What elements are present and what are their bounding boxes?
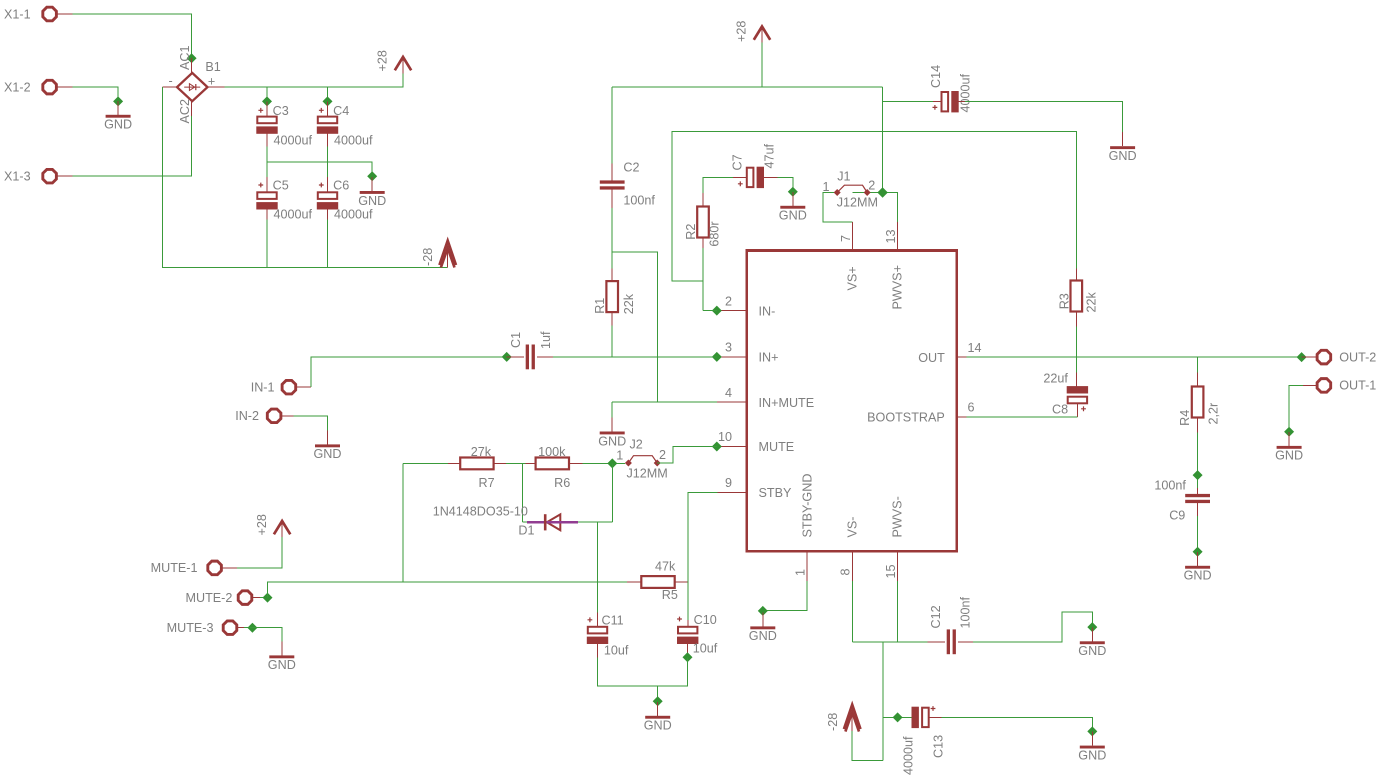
wire row4 ground drop	[611, 402, 613, 417]
wire +28 mute arrow stem	[281, 521, 283, 537]
svg-text:4000uf: 4000uf	[902, 736, 916, 775]
pin 3 IN+ stub	[717, 356, 747, 358]
svg-text:J1: J1	[837, 169, 850, 183]
wire C3 bottom lead	[266, 134, 268, 147]
node C13 ground junction	[1087, 726, 1097, 736]
wire C4 bottom to mid rail	[327, 146, 329, 162]
svg-text:C9: C9	[1169, 509, 1185, 523]
svg-text:MUTE-3: MUTE-3	[167, 621, 214, 635]
svg-text:+: +	[208, 75, 215, 89]
node OUT-1 ground junction	[1284, 427, 1294, 437]
wire MUTE-2 stub	[252, 597, 260, 599]
svg-text:OUT-1: OUT-1	[1339, 379, 1376, 393]
pin 1 STBY-GND stub	[806, 551, 808, 581]
svg-text:4000uf: 4000uf	[959, 73, 973, 112]
wire -28 net from B1 minus	[163, 87, 448, 267]
wire OUT-1 to ground	[1289, 385, 1303, 431]
wire C12 to ground	[973, 612, 1093, 642]
svg-text:C6: C6	[333, 179, 349, 193]
svg-text:4000uf: 4000uf	[274, 133, 313, 147]
capacitor C8 (flipped, plus down)	[1067, 386, 1088, 403]
wire C6 bottom lead	[327, 208, 329, 219]
pin 10 MUTE stub	[717, 446, 747, 448]
svg-text:+28: +28	[255, 514, 269, 535]
resistor R1	[606, 281, 618, 312]
diode D1	[547, 514, 561, 530]
wire R4 bottom lead	[1197, 418, 1199, 433]
svg-text:680r: 680r	[708, 221, 722, 246]
wire D1 left lead	[527, 521, 544, 523]
ground symbol at pin4	[598, 418, 626, 449]
wire -28 arrow stem	[851, 716, 853, 731]
svg-text:C5: C5	[273, 179, 289, 193]
svg-text:4000uf: 4000uf	[334, 207, 373, 221]
node OUT-2 junction	[1297, 352, 1307, 362]
capacitor C13	[912, 707, 929, 728]
connector pad OUT-2	[1317, 350, 1376, 364]
wire AC2 pin lead	[191, 101, 193, 116]
node MUTE-2 junction	[263, 593, 273, 603]
wire +28 column down to J1	[882, 87, 884, 192]
wire C1 left lead	[507, 356, 524, 358]
node pin2 junction	[712, 306, 722, 316]
resistor R2	[697, 207, 709, 238]
wire C9 bottom lead	[1197, 503, 1199, 516]
wire R6 right lead	[569, 462, 583, 464]
pin 7 VS+ stub	[852, 222, 854, 251]
wire C2 top column	[611, 87, 613, 163]
bridge rectifier B1	[177, 73, 208, 101]
svg-text:C2: C2	[623, 161, 639, 175]
wire +28 arrow stem (top center)	[761, 43, 763, 88]
wire OUT-2 stub	[1302, 356, 1318, 358]
connector pad MUTE-3	[167, 621, 237, 635]
svg-text:4000uf: 4000uf	[274, 207, 313, 221]
wire IN- feedback rail	[672, 132, 1077, 282]
wire MUTE-1 stub	[221, 567, 237, 569]
power arrow -28 (top left block)	[439, 241, 456, 268]
svg-text:22k: 22k	[1085, 291, 1099, 312]
wire MUTE-1 to +28	[237, 537, 282, 568]
capacitor C5	[256, 192, 277, 209]
wire pin2 to R2	[703, 310, 717, 312]
svg-text:6: 6	[968, 401, 975, 415]
wire R5 left lead	[627, 581, 642, 583]
svg-text:14: 14	[968, 341, 982, 355]
svg-text:100k: 100k	[538, 445, 566, 459]
wire C4 top drop	[327, 87, 329, 101]
wire pin15 drop	[897, 581, 899, 642]
wire R3 top lead	[1075, 268, 1077, 281]
wire R1 bottom lead	[611, 312, 613, 326]
wire D1 to C11 drop	[597, 522, 599, 612]
wire R4 to C9	[1197, 433, 1199, 489]
svg-text:C3: C3	[273, 104, 289, 118]
wire D1 left vertical	[521, 463, 523, 522]
wire C2 top lead	[611, 163, 613, 180]
svg-text:C11: C11	[602, 613, 624, 627]
jumper J1 pad 2	[864, 189, 871, 196]
wire R7 branch vertical	[402, 463, 404, 582]
jumper J2 bridge	[628, 456, 657, 463]
wire MUTE-2 to junction	[260, 597, 268, 599]
capacitor C2	[600, 180, 625, 189]
svg-text:15: 15	[884, 564, 898, 578]
ground symbol at C4/C6 rail	[358, 177, 386, 208]
svg-text:-28: -28	[826, 713, 840, 731]
svg-text:4000uf: 4000uf	[334, 133, 373, 147]
wire +28 rail from B1 plus	[225, 73, 404, 87]
svg-text:OUT: OUT	[918, 351, 945, 365]
wire IN-1 stub	[296, 386, 312, 388]
svg-text:2,2r: 2,2r	[1207, 403, 1221, 425]
svg-text:PWVS+: PWVS+	[890, 265, 904, 309]
wire J1 pad1 wire	[823, 193, 852, 223]
node C1 left junction	[502, 352, 512, 362]
wire C14 right lead	[959, 101, 966, 103]
wire C3 top drop	[266, 87, 268, 101]
svg-text:BOOTSTRAP: BOOTSTRAP	[867, 411, 945, 425]
svg-text:47uf: 47uf	[763, 143, 777, 168]
connector pad IN-2	[235, 409, 281, 423]
pin 13 PWVS+ stub	[897, 222, 899, 251]
node C9 ground junction	[1193, 547, 1203, 557]
wire C5 bottom to -28 rail	[266, 220, 268, 268]
wire +28 arrow maroon stem	[761, 27, 763, 43]
svg-text:2: 2	[725, 294, 732, 308]
svg-text:-: -	[169, 74, 173, 88]
svg-text:100nf: 100nf	[959, 596, 973, 628]
wire MUTE-2 long rail	[268, 582, 627, 598]
wire C12 left lead	[927, 641, 944, 643]
capacitor C12	[947, 629, 956, 654]
node C10/C11 ground junction	[653, 696, 663, 706]
resistor R4	[1192, 387, 1204, 418]
wire R5 right lead	[674, 581, 688, 583]
wire OUT-1 stub	[1303, 384, 1317, 386]
ground symbol at C13	[1078, 732, 1106, 763]
wire -28 column	[882, 642, 884, 761]
svg-text:100nf: 100nf	[1154, 478, 1186, 492]
wire ground mid rail	[267, 162, 372, 176]
svg-text:D1: D1	[518, 524, 534, 538]
wire C3 bottom to mid rail	[266, 146, 268, 162]
wire pin6 row	[966, 416, 1077, 418]
resistor R6	[536, 458, 569, 470]
wire B1 minus lead	[163, 86, 177, 88]
svg-text:10uf: 10uf	[604, 643, 629, 657]
connector pad X1-2	[4, 80, 56, 94]
node X1-2 ground junction	[113, 96, 123, 106]
svg-text:10: 10	[718, 430, 732, 444]
wire VS- rail	[852, 641, 927, 643]
wire R1 bottom to IN+ row	[611, 326, 613, 357]
wire C4 top lead	[327, 101, 329, 116]
svg-text:J12MM: J12MM	[627, 466, 668, 480]
wire C9 to ground	[1197, 516, 1199, 552]
wire C10 bottom lead	[687, 644, 689, 658]
label C13 plus	[931, 706, 936, 711]
wire C3 top lead	[266, 101, 268, 116]
capacitor C1	[526, 345, 535, 370]
wire C14 left lead	[933, 101, 941, 103]
wire D1 right vertical	[611, 463, 613, 522]
wire OUT row	[966, 356, 1301, 358]
wire B1 plus lead	[208, 86, 225, 88]
svg-text:9: 9	[725, 476, 732, 490]
node mid rail ground junction	[367, 171, 377, 181]
wire R6 to J2	[583, 462, 625, 464]
wire C6 top from rail	[327, 162, 329, 177]
wire IN-1 to C1	[311, 357, 507, 387]
svg-text:3: 3	[725, 341, 732, 355]
svg-text:X1-3: X1-3	[4, 170, 31, 184]
wire C11 top lead	[597, 612, 599, 627]
wire C11 bottom lead	[597, 643, 599, 658]
wire C7 right lead	[764, 176, 777, 178]
wire IN-2 to ground	[294, 416, 328, 432]
wire pin8 drop	[851, 581, 853, 642]
wire R2 bottom lead	[702, 238, 704, 248]
node MUTE-3 junction	[247, 623, 257, 633]
svg-text:R4: R4	[1178, 410, 1192, 426]
wire R7 row left	[403, 462, 448, 464]
svg-text:+28: +28	[735, 21, 749, 42]
capacitor C14	[942, 91, 959, 112]
wire R2 top lead	[702, 193, 704, 207]
pin 2 IN- stub	[717, 310, 747, 312]
svg-text:2: 2	[868, 178, 875, 192]
svg-text:27k: 27k	[471, 445, 492, 459]
resistor R7	[460, 458, 493, 470]
node C3 junction	[262, 96, 272, 106]
ground symbol at MUTE-3	[268, 641, 296, 672]
capacitor C10	[677, 627, 698, 644]
svg-text:AC1: AC1	[178, 46, 192, 71]
wire AC1 pin lead	[191, 58, 193, 73]
wire R3 bottom lead	[1075, 311, 1077, 326]
capacitor C4	[317, 117, 338, 134]
wire R4 top lead	[1197, 373, 1199, 386]
connector pad X1-1	[4, 7, 56, 21]
svg-text:MUTE-1: MUTE-1	[151, 561, 198, 575]
svg-text:J2: J2	[630, 437, 643, 451]
wire C2 bottom lead	[611, 190, 613, 208]
svg-text:C7: C7	[731, 154, 745, 170]
svg-text:1uf: 1uf	[539, 331, 553, 349]
svg-text:8: 8	[839, 568, 853, 575]
svg-text:10uf: 10uf	[693, 641, 718, 655]
diode D1 cathode bar	[544, 514, 547, 530]
node pin10 junction	[712, 442, 722, 452]
svg-text:C13: C13	[932, 735, 946, 758]
connector pad X1-3	[4, 169, 56, 183]
ground symbol at C9	[1184, 552, 1212, 583]
jumper J1 bridge	[837, 185, 867, 192]
wire R7 right lead	[494, 462, 506, 464]
wire X1-2 pin stub	[56, 86, 72, 88]
ground symbol at C12	[1078, 627, 1106, 658]
wire J2 pad2 to pin10	[657, 447, 717, 464]
connector pad OUT-1	[1317, 379, 1376, 393]
node C13 junction	[893, 712, 903, 722]
wire R6 left lead	[526, 462, 536, 464]
svg-text:C1: C1	[509, 332, 523, 348]
pin 9 STBY stub	[718, 492, 747, 494]
ground symbol at pin1	[749, 612, 777, 643]
wire IN-2 stub	[281, 415, 294, 417]
capacitor C9	[1185, 494, 1210, 503]
svg-text:R5: R5	[662, 588, 678, 602]
wire R2 column	[702, 248, 704, 311]
wire X1-2 to ground	[73, 87, 118, 101]
capacitor C7	[747, 167, 764, 188]
wire -28 arrow to column	[852, 731, 883, 761]
ground symbol at C7	[779, 192, 807, 223]
svg-text:C10: C10	[694, 613, 717, 627]
wire C7 left lead	[733, 176, 747, 178]
ground symbol at OUT-1	[1275, 432, 1303, 463]
svg-text:R3: R3	[1058, 293, 1072, 309]
wire C5 top lead	[266, 177, 268, 192]
svg-text:C4: C4	[333, 104, 349, 118]
svg-text:IN-2: IN-2	[235, 409, 259, 423]
pin 8 VS- stub	[851, 551, 853, 581]
wire STBY column	[688, 493, 718, 621]
label C11 plus	[588, 617, 593, 622]
svg-text:IN+: IN+	[759, 351, 779, 365]
pin 6 BOOTSTRAP stub	[957, 416, 967, 418]
pin 4 IN+MUTE stub	[717, 401, 747, 403]
wire C7 to ground	[777, 177, 793, 191]
wire C2 bottom to R1 top	[611, 208, 613, 268]
wire C10/C11 ground rail	[598, 657, 688, 686]
wire D1 row	[522, 521, 612, 523]
label C6 plus	[319, 183, 324, 188]
wire C5 bottom lead	[266, 208, 268, 219]
wire -28 arrow stem	[447, 252, 449, 268]
wire C10 top lead	[687, 620, 689, 627]
svg-text:2: 2	[659, 448, 666, 462]
pin 15 PWVS- stub	[897, 551, 899, 581]
capacitor C11	[587, 627, 608, 644]
svg-text:R1: R1	[593, 298, 607, 314]
op-amp IC body	[747, 251, 957, 552]
wire row4 to pin4	[612, 401, 717, 403]
svg-text:1: 1	[822, 180, 829, 194]
svg-text:J12MM: J12MM	[837, 196, 878, 210]
wire X1-1 to AC1	[73, 14, 192, 58]
svg-text:-28: -28	[421, 248, 435, 266]
svg-text:R7: R7	[479, 476, 495, 490]
label C4 plus	[319, 108, 324, 113]
wire +28 arrow stem	[402, 57, 404, 73]
wire C12 right lead	[958, 641, 973, 643]
svg-text:+28: +28	[376, 50, 390, 71]
svg-text:C8: C8	[1052, 403, 1068, 417]
wire R2 top to C7	[703, 177, 733, 193]
wire J1 pad2 to +28 junction	[853, 193, 898, 223]
svg-text:IN-: IN-	[759, 304, 776, 318]
wire C13 row from -28 column	[883, 716, 912, 718]
svg-text:B1: B1	[205, 60, 220, 74]
wire R1 top lead	[611, 268, 613, 281]
node C9 top junction	[1193, 470, 1203, 480]
label C10 plus	[677, 617, 682, 622]
power arrow -28 (bottom)	[844, 705, 861, 732]
wire C13 right lead	[929, 716, 942, 718]
wire X1-1 pin stub	[56, 13, 72, 15]
svg-text:MUTE: MUTE	[759, 440, 795, 454]
svg-text:IN+MUTE: IN+MUTE	[759, 396, 815, 410]
svg-text:R2: R2	[684, 224, 698, 240]
wire C13 to ground	[942, 717, 1093, 731]
power arrow +28 (mute)	[274, 521, 290, 534]
wire C8 bottom lead	[1076, 402, 1078, 417]
ground symbol at X1-2	[104, 101, 132, 132]
wire branch to IN+MUTE column	[612, 252, 657, 402]
wire C1 right lead	[537, 356, 553, 358]
jumper J1 pad 1	[834, 189, 841, 196]
svg-text:C14: C14	[929, 65, 943, 88]
connector pad MUTE-1	[151, 561, 222, 575]
resistor R5	[641, 576, 674, 588]
svg-text:IN-1: IN-1	[251, 381, 275, 395]
svg-text:100nf: 100nf	[623, 193, 655, 207]
wire +28 rail (C2 to J1 column)	[612, 86, 882, 88]
connector pad IN-1	[251, 380, 296, 394]
label C14 plus	[933, 105, 938, 110]
wire R7 left lead	[448, 462, 460, 464]
svg-text:4: 4	[725, 386, 732, 400]
capacitor C6	[317, 192, 338, 209]
node C10 bottom junction	[683, 652, 693, 662]
svg-text:VS+: VS+	[845, 266, 859, 290]
wire X1-3 to AC2	[73, 116, 192, 176]
svg-text:13: 13	[884, 229, 898, 243]
wire C6 top lead	[327, 177, 329, 192]
ground symbol at C10/C11	[644, 702, 672, 733]
wire R3 bottom to C8	[1075, 326, 1077, 372]
svg-text:AC2: AC2	[178, 99, 192, 124]
node C12 ground junction	[1087, 622, 1097, 632]
node AC1 junction	[187, 53, 197, 63]
wire C6 bottom to -28 rail	[327, 220, 329, 268]
node C4 junction	[323, 96, 333, 106]
wire D1 overlap highlight	[527, 521, 578, 523]
wire ground stem	[657, 686, 659, 701]
svg-text:PWVS-: PWVS-	[890, 496, 904, 537]
wire R4 top from OUT row	[1197, 357, 1199, 373]
label C3 plus	[258, 108, 263, 113]
svg-text:C12: C12	[929, 605, 943, 628]
svg-text:1: 1	[794, 569, 808, 576]
svg-text:X1-1: X1-1	[4, 7, 31, 21]
label C5 plus	[258, 183, 263, 188]
wire C1 to pin3	[553, 356, 717, 358]
wire R7-R6 link	[506, 462, 526, 464]
node C7 ground junction	[788, 187, 798, 197]
node +28/J1-2 junction	[877, 187, 888, 198]
wire D1 right lead	[561, 521, 578, 523]
resistor R3	[1071, 281, 1083, 312]
svg-text:STBY: STBY	[759, 486, 792, 500]
ground symbol at C14	[1109, 132, 1137, 163]
wire C9 top lead	[1197, 488, 1199, 494]
wire pin1 to ground	[763, 581, 807, 611]
svg-text:1: 1	[616, 448, 623, 462]
label C8 plus	[1081, 406, 1086, 411]
